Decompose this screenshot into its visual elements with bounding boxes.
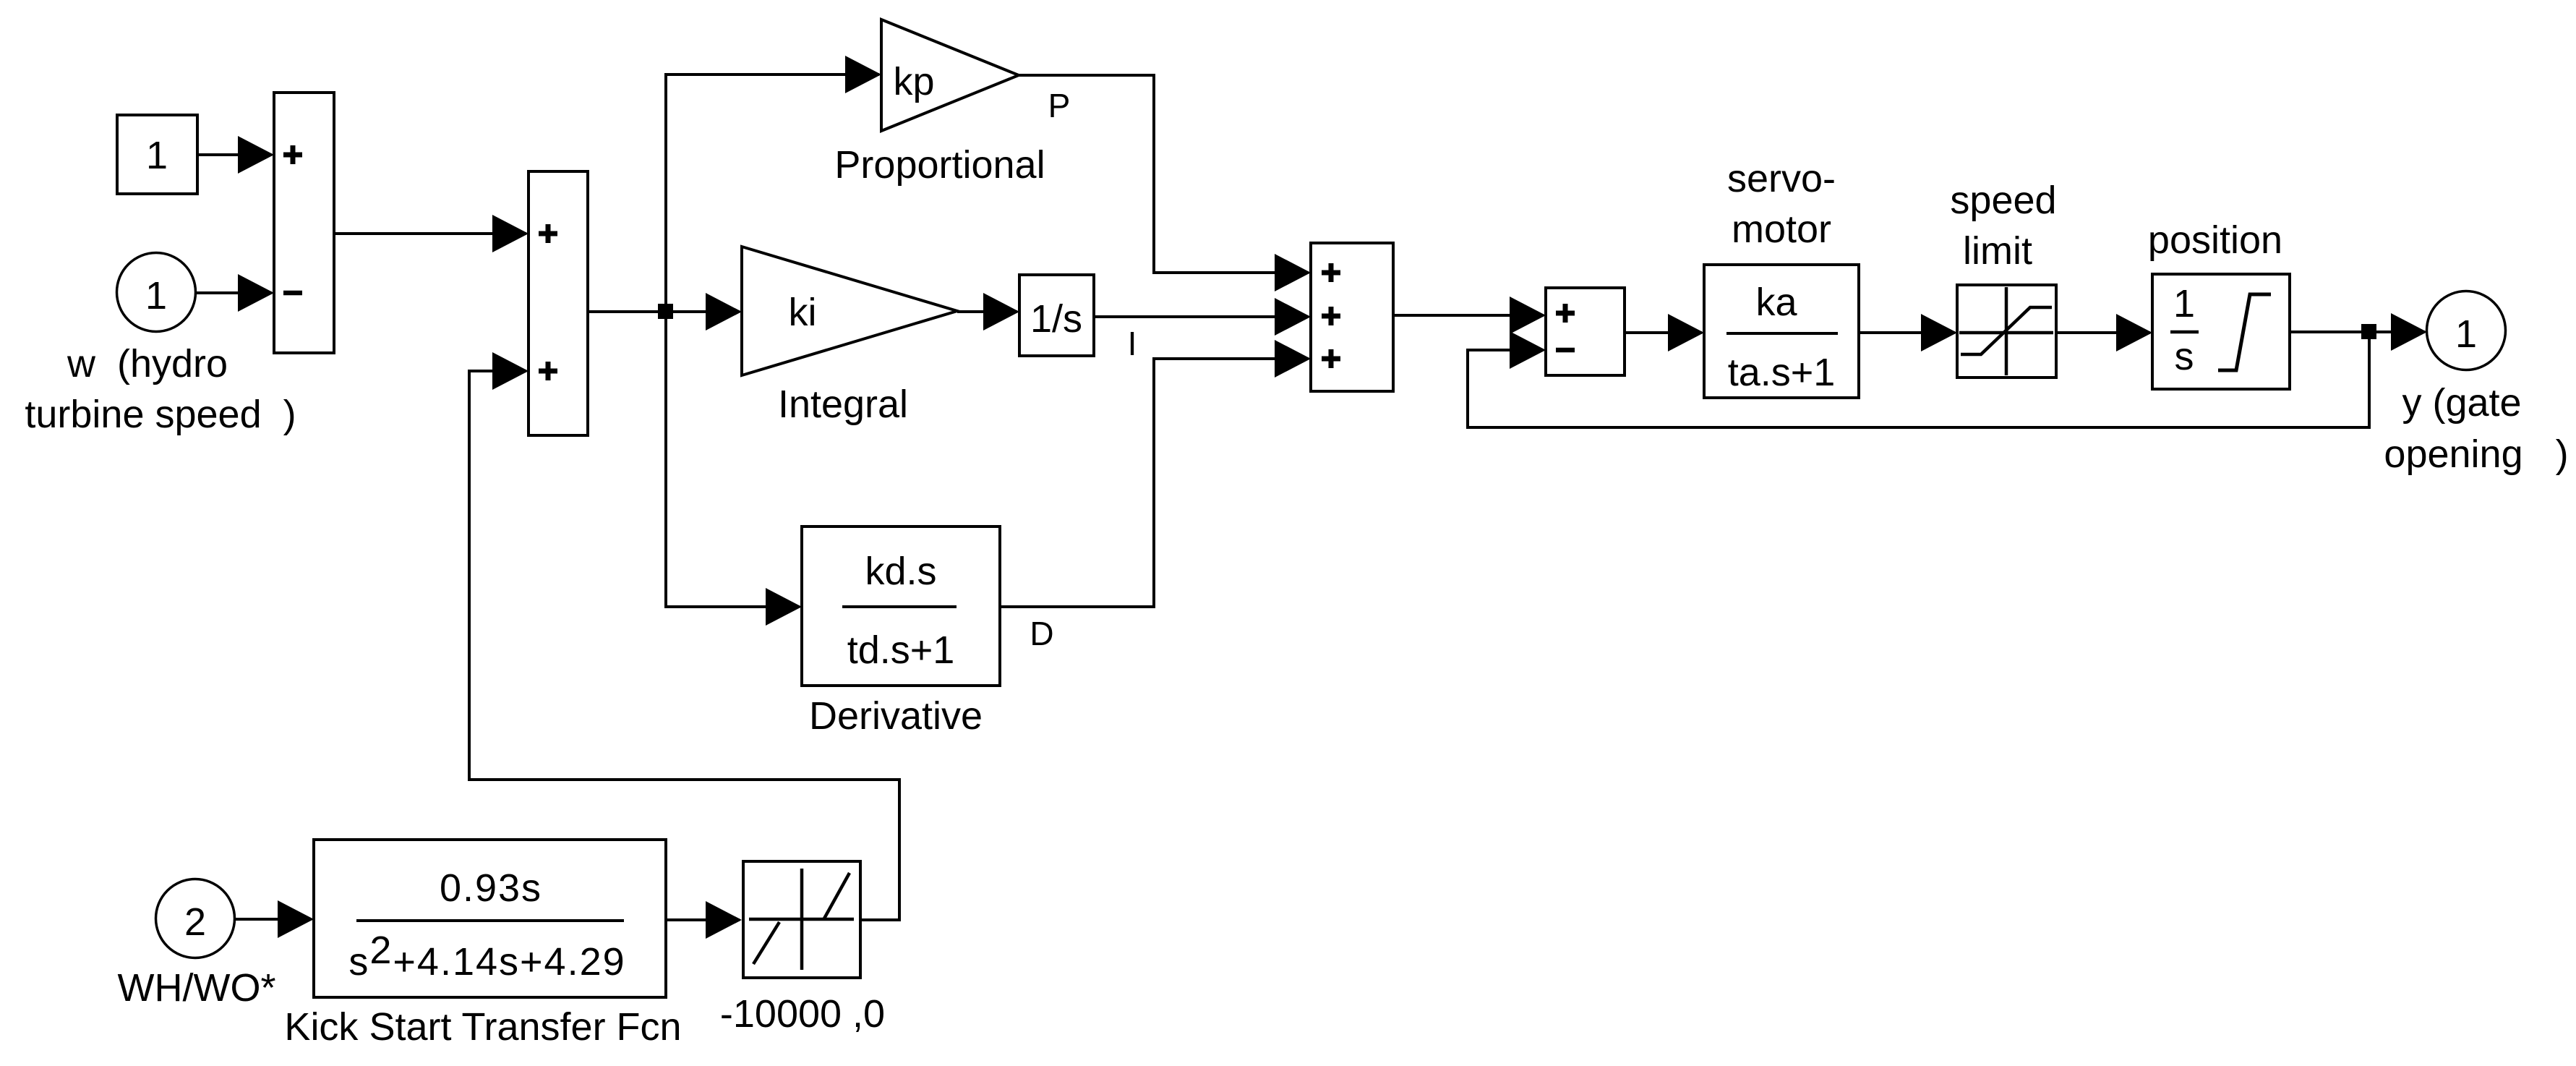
wire position to output port with junction [2290,313,2427,351]
svg-text:Kick Start Transfer Fcn: Kick Start Transfer Fcn [284,1005,681,1049]
svg-text:ki: ki [789,291,817,334]
gain block kp (Proportional) [834,20,1045,187]
svg-text:limit: limit [1963,229,2032,273]
wire constant to Sum1 [197,136,274,174]
svg-text:servo-: servo- [1727,157,1836,200]
transfer fcn block kd.s/td.s+1 (Derivative) [802,526,1000,738]
wire Sum1 to Sum2 [334,215,529,252]
input port 1 (w hydro turbine speed) [25,253,296,437]
wire kp to Sum3 (P) [1019,75,1311,291]
saturation block -10000,0 [720,861,885,1036]
svg-text:P: P [1048,87,1071,124]
constant block 1 [117,115,197,194]
wire speed limit to position [2056,314,2152,351]
transfer fcn block 0.93s/(s^2+4.14s+4.29) Kick Start [284,840,681,1049]
output port 1 (y gate opening) [2384,291,2568,477]
svg-text:y (gate: y (gate [2402,381,2521,425]
wire ka to speed limit [1859,314,1957,351]
svg-text:D: D [1030,615,1053,652]
svg-text:opening ): opening ) [2384,432,2568,476]
svg-text:s: s [2175,335,2194,378]
svg-text:ta.s+1: ta.s+1 [1728,351,1836,394]
svg-text:I: I [1128,325,1137,362]
sum block Sum2 [529,171,588,435]
svg-text:-10000 ,0: -10000 ,0 [720,992,885,1036]
svg-text:Integral: Integral [778,383,908,426]
wire Sum3 to Sum4 [1393,297,1546,334]
svg-text:kp: kp [893,60,934,103]
svg-text:ka: ka [1755,281,1797,324]
gain block ki (Integral) [742,247,957,426]
svg-text:WH/WO*: WH/WO* [118,966,276,1010]
svg-text:1: 1 [2455,312,2477,356]
wire input2 to kick start block [234,900,314,938]
svg-text:1: 1 [2173,282,2195,325]
sum block Sum4 [1546,288,1625,375]
svg-text:Derivative: Derivative [809,694,983,738]
saturation block speed limit [1950,179,2056,378]
wire junction up to kp gain [666,56,881,312]
transfer fcn block ka/(ta.s+1) (servo-motor) [1704,157,1859,398]
wire Sum2 to ki gain with junction [588,293,742,331]
svg-text:2: 2 [184,900,206,944]
svg-text:1/s: 1/s [1030,297,1082,341]
wire ki to integrator 1/s [957,293,1019,331]
svg-text:0.93s: 0.93s [440,866,542,910]
input port 2 (WH/WO*) [118,879,276,1010]
svg-text:1: 1 [145,274,167,317]
wire junction down to kd block [666,312,802,626]
feedback wire output to Sum4 minus [1468,331,2369,427]
integrator block 1/s [1019,275,1094,356]
svg-text:turbine speed ): turbine speed ) [25,393,296,436]
svg-text:kd.s: kd.s [865,550,936,593]
svg-text:1: 1 [146,134,168,177]
integrator block position (1/s with saturation) [2148,218,2290,389]
wire kd to Sum3 (D) [1000,340,1311,607]
wire 1/s to Sum3 (I) [1094,298,1311,336]
sum block Sum1 [274,93,334,353]
wire kick start to saturation [666,901,742,939]
svg-text:position: position [2148,218,2282,262]
wire Sum4 to ka block [1625,314,1704,351]
svg-text:w (hydro: w (hydro [67,342,228,385]
svg-text:td.s+1: td.s+1 [847,628,955,672]
junction node [658,304,673,319]
wire saturation up and around to Sum2 second plus [469,352,899,920]
sum block Sum3 (P+I+D) [1311,243,1393,391]
svg-text:speed: speed [1950,179,2056,222]
wire input1 to Sum1 [194,274,274,312]
svg-text:motor: motor [1732,208,1831,251]
junction node [2361,324,2376,339]
svg-text:Proportional: Proportional [834,143,1045,187]
